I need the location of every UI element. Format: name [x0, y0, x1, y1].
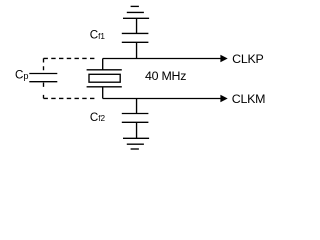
capacitor Cf1 lower lead wire: [136, 42, 138, 58]
capacitor Cp upper plate: [29, 73, 57, 75]
ground top (flipped) bar 2: [127, 11, 144, 13]
dashed wire left lower (from Cp): [43, 83, 45, 99]
wire top output (node CLKP): [103, 58, 221, 60]
ground top (flipped) bar 3: [131, 5, 139, 7]
crystal body rectangle (40 MHz): [89, 74, 120, 82]
capacitor Cp lower plate: [29, 81, 57, 83]
ground bottom bar 3: [131, 148, 139, 150]
crystal bottom plate: [87, 86, 122, 88]
arrowhead CLKP: [220, 55, 227, 62]
capacitor Cf1 upper plate: [122, 32, 149, 34]
capacitor Cf2 lower lead wire: [136, 122, 138, 138]
svg-text:CLKP: CLKP: [232, 52, 263, 66]
crystal top stub wire: [102, 59, 104, 70]
arrowhead CLKM: [220, 95, 227, 102]
dashed wire left upper (to Cp): [43, 58, 45, 73]
capacitor Cf1 lower plate: [122, 41, 149, 43]
svg-text:CLKM: CLKM: [232, 92, 265, 106]
capacitor Cf1 upper lead wire: [136, 18, 138, 33]
ground bottom bar 2: [127, 143, 144, 145]
wire bottom output (node CLKM): [103, 98, 221, 100]
svg-text:Cf2: Cf2: [90, 111, 106, 124]
dashed wire top (parasitic Cp path to crystal top node): [44, 57, 98, 59]
crystal top plate: [87, 69, 122, 71]
ground top (flipped) bar 1: [123, 17, 149, 19]
capacitor Cf2 upper plate: [122, 113, 149, 115]
capacitor Cf2 lower plate: [122, 121, 149, 123]
dashed wire bottom (parasitic Cp path to crystal bottom node): [44, 97, 98, 99]
svg-text:Cf1: Cf1: [90, 28, 106, 41]
ground bottom bar 1: [123, 137, 149, 139]
svg-text:Cp: Cp: [15, 69, 29, 82]
crystal bottom stub wire: [102, 87, 104, 99]
svg-text:40 MHz: 40 MHz: [145, 69, 186, 83]
capacitor Cf2 upper lead wire: [136, 99, 138, 114]
